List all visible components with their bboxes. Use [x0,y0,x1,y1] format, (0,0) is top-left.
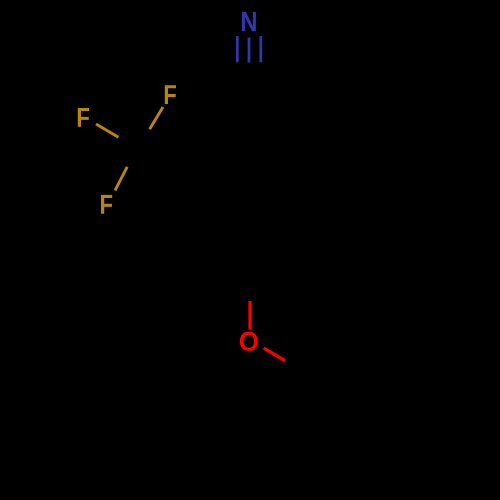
nitrile triple bond C#N (blue N-side half, three parallel lines) [237,36,260,62]
atom label N (nitrile nitrogen) [242,12,256,31]
C-F bond to top fluorine (gold half) [150,107,163,129]
O-C bond, oxygen to phenyl carbon (red half) [264,348,286,361]
atom label O (aryl ether oxygen) [240,332,258,351]
C-O bond, ring carbon down to oxygen (red half) [248,301,251,330]
C-F bond to bottom fluorine (gold half) [115,167,127,191]
C-F bond to left fluorine (gold half) [96,124,118,137]
atom label F (bottom fluorine of CF3) [101,195,112,214]
atom label F (top fluorine of CF3) [165,85,176,104]
atom label F (left fluorine of CF3) [78,108,89,127]
